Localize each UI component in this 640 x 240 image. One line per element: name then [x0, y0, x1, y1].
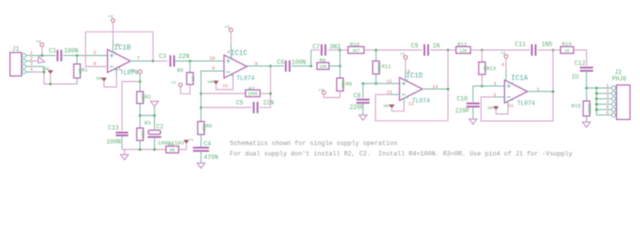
wire IC1C output — [247, 65, 284, 67]
wire R13 to ground — [586, 116, 588, 122]
svg-text:5: 5 — [94, 50, 97, 56]
svg-text:R13: R13 — [487, 66, 496, 72]
svg-text:3: 3 — [30, 61, 33, 67]
svg-text:0R: 0R — [170, 149, 176, 153]
svg-text:C9: C9 — [411, 42, 419, 49]
resistor R3 — [137, 128, 144, 141]
ground below C10 — [469, 119, 477, 124]
svg-text:C6: C6 — [277, 59, 285, 66]
svg-text:1M: 1M — [77, 68, 82, 74]
wire Vref flag stem — [154, 107, 156, 116]
wire R13 lower lead to pin3 line — [481, 75, 483, 87]
svg-text:+V: +V — [400, 53, 406, 58]
supply arrow GND below IC1A — [494, 107, 499, 110]
svg-text:+V: +V — [36, 40, 42, 45]
resistor R6 — [198, 122, 205, 135]
junction Vref divider — [139, 114, 142, 117]
capacitor C7 — [322, 44, 326, 55]
node N2 junction — [552, 49, 555, 52]
wire IC1C output feedback vertical — [270, 66, 272, 108]
capacitor C11 — [532, 44, 536, 55]
junction pin1/+V stem — [41, 54, 44, 57]
wire bias ground rail — [122, 149, 166, 151]
connector J1 pin 1 stub — [26, 55, 34, 57]
capacitor C10 — [466, 103, 479, 106]
junction R7/vertical — [269, 92, 272, 95]
junction IC1A output/feedback — [552, 90, 555, 93]
svg-text:R6: R6 — [206, 124, 212, 130]
connector J1 pin 3 circle — [22, 65, 26, 69]
wire IC1A V- to supply arrow — [496, 106, 508, 114]
pin IC1B V+ stub — [112, 40, 114, 52]
pin IC1C V+ stub — [230, 45, 232, 59]
supply arrow GND below IC1D — [389, 105, 394, 108]
svg-text:R7: R7 — [249, 86, 255, 92]
svg-text:IC1A: IC1A — [511, 75, 529, 83]
wire N2 to R14 — [553, 49, 561, 51]
svg-text:100N: 100N — [64, 48, 79, 55]
wire C8 top lead — [362, 84, 364, 99]
svg-text:C8: C8 — [354, 93, 362, 100]
pin IC1D V- stub — [403, 98, 405, 104]
svg-text:+V: +V — [189, 139, 194, 143]
svg-text:R8: R8 — [320, 58, 326, 64]
wire J1 pin4 to ground run — [34, 72, 77, 84]
svg-text:R11: R11 — [382, 64, 391, 70]
junction rail/C2 — [153, 148, 156, 151]
svg-text:C12: C12 — [575, 60, 586, 67]
connector J2 pin 4 circle — [612, 102, 616, 106]
wire +V to IC1A power pin — [505, 58, 507, 70]
wire R10 to C9 — [364, 49, 423, 51]
connector J1 pin 4 circle — [22, 70, 26, 74]
junction IC1D output/feedback — [447, 88, 450, 91]
wire C2 top lead — [154, 116, 156, 131]
wire rail gnd stem — [124, 150, 126, 155]
resistor R9 — [337, 78, 344, 91]
wire C7 to node B — [327, 49, 340, 51]
wire R6 to C4 — [200, 135, 202, 148]
resistor R12 — [456, 47, 471, 54]
svg-text:1M: 1M — [190, 76, 195, 82]
wire C8 bottom lead — [362, 103, 364, 115]
wire R5 top lead — [189, 61, 191, 73]
junction R11/pin12 line — [375, 82, 378, 85]
wire +V to IC1D power pin — [405, 59, 407, 70]
wire +V flag stem to pin1 net — [41, 47, 43, 56]
power +V above IC1D — [404, 56, 408, 60]
wire C2 bottom lead — [154, 138, 156, 150]
power +V above R2 — [138, 70, 142, 74]
svg-text:4: 4 — [502, 62, 505, 68]
supply arrow GND below IC1C — [214, 81, 219, 84]
resistor R1 — [74, 64, 81, 78]
svg-text:22N: 22N — [179, 53, 190, 60]
pin IC1C V- stub — [232, 74, 234, 79]
svg-text:220P: 220P — [455, 108, 470, 115]
capacitor C1 — [58, 50, 62, 61]
connector J2 body — [617, 85, 631, 120]
wire J2 bus stub to pin 3 — [597, 98, 612, 100]
svg-text:100K: 100K — [248, 93, 259, 97]
wire IC1A feedback loop — [481, 50, 553, 121]
svg-text:GND: GND — [43, 68, 51, 72]
svg-text:PHJ6: PHJ6 — [612, 75, 627, 82]
wire J2 bus stub to pin 2 — [597, 92, 612, 94]
node A junction — [310, 65, 313, 68]
wire N1 vertical upper lead — [481, 50, 483, 62]
svg-text:R10: R10 — [350, 42, 359, 48]
connector J2 pin 5 circle — [612, 108, 616, 112]
svg-text:100N: 100N — [107, 139, 122, 146]
power Vref flag below R5 — [179, 83, 183, 87]
connector J2 pin 2 circle — [612, 91, 616, 95]
wire C9 to R12 — [430, 49, 456, 51]
junction J2 bus pin 3 — [595, 98, 598, 101]
svg-text:C7: C7 — [313, 43, 321, 50]
wire R12 to node N1 — [471, 49, 483, 51]
wire C10 top lead — [472, 86, 474, 102]
svg-text:R14: R14 — [562, 41, 571, 47]
svg-text:C13: C13 — [108, 125, 119, 132]
junction Vref/C2 — [153, 114, 156, 117]
capacitor C4 — [193, 148, 209, 151]
svg-text:2: 2 — [606, 88, 609, 94]
power +V above IC1C — [229, 28, 233, 32]
junction IC1B output/feedback — [152, 60, 155, 63]
junction N1-vertical/pin3 line — [481, 85, 484, 88]
capacitor C12 — [580, 68, 593, 71]
svg-text:R9: R9 — [346, 81, 352, 87]
svg-text:100N: 100N — [292, 59, 307, 66]
svg-text:10K: 10K — [140, 94, 145, 102]
svg-text:1K: 1K — [564, 50, 570, 54]
connector J1 body — [10, 53, 22, 77]
junction feedback/C5 line — [200, 106, 203, 109]
resistor R13 (N1 to IC1A pin3) — [479, 62, 486, 75]
svg-text:4: 4 — [606, 99, 609, 105]
op-amp IC1B — [108, 50, 131, 73]
resistor R15 — [583, 101, 590, 116]
svg-text:GND: GND — [208, 81, 216, 85]
wire IC1A output — [528, 91, 554, 93]
junction J2 bus pin 4 — [595, 103, 598, 106]
wire +V to IC1B power pin — [112, 22, 114, 40]
wire IC1D pin13 stub — [390, 94, 400, 96]
pin IC1A V- stub — [507, 101, 509, 106]
svg-text:1N: 1N — [433, 42, 441, 49]
resistor R4 — [166, 146, 179, 153]
svg-text:4: 4 — [30, 66, 33, 72]
svg-text:R2: R2 — [145, 95, 151, 101]
wire IC1C V- to supply arrow — [216, 79, 233, 90]
op-amp IC1A — [505, 80, 528, 103]
resistor R14 — [561, 47, 574, 54]
svg-text:220P: 220P — [350, 104, 365, 111]
junction C12/J2 link — [585, 87, 588, 90]
connector J2 pin 1 circle — [612, 86, 616, 90]
ground below R13 — [583, 122, 591, 127]
svg-text:R5: R5 — [177, 68, 183, 74]
svg-text:68K: 68K — [201, 124, 206, 132]
connector J2 pin 6 circle — [612, 113, 616, 117]
svg-text:C10: C10 — [457, 95, 468, 102]
wire N1 to C11 — [482, 49, 530, 51]
wire +V to R2 — [139, 74, 141, 92]
svg-text:GND: GND — [384, 105, 392, 109]
svg-text:Schematics shown for single su: Schematics shown for single supply opera… — [230, 140, 398, 147]
wire J2 bus — [596, 88, 598, 115]
op-amp IC1C — [224, 55, 247, 78]
net flag arrow above C2 — [151, 101, 159, 106]
wire IC1B feedback loop pin6 — [86, 32, 154, 67]
wire node A to C7 — [311, 49, 320, 51]
svg-text:R15: R15 — [572, 103, 581, 109]
wire IC1D output — [423, 88, 449, 90]
junction J2 bus pin 5 — [595, 108, 598, 111]
svg-text:+V: +V — [171, 81, 177, 86]
node B top junction — [339, 49, 342, 52]
connector J1 pin 1 circle — [22, 54, 26, 58]
ground below C4 — [197, 163, 205, 168]
connector J1 pin 2 stub — [26, 60, 34, 62]
wire J2 bus stub to pin 5 — [597, 109, 612, 111]
wire node A vertical — [310, 50, 312, 66]
wire +V to IC1C power pin — [230, 32, 232, 45]
supply arrow GND below IC1B — [102, 78, 107, 81]
svg-text:22N: 22N — [263, 100, 274, 107]
wire node B vertical — [339, 50, 341, 78]
wire J2 bus stub to pin 6 — [597, 114, 612, 116]
wire R1 bottom lead to ground run — [76, 78, 78, 84]
pin IC1A V+ stub — [505, 70, 507, 81]
svg-text:10: 10 — [210, 56, 216, 62]
svg-text:1N5: 1N5 — [542, 41, 553, 48]
pin IC1B V- stub — [116, 68, 118, 76]
svg-text:6: 6 — [606, 110, 609, 116]
resistor R11 — [373, 61, 380, 74]
junction J1 pin3/pin4 — [43, 71, 46, 74]
wire C3 to IC1C pin10 — [175, 60, 224, 62]
resistor R8 — [317, 63, 329, 70]
resistor R2 — [137, 92, 144, 104]
capacitor C6 — [286, 60, 290, 71]
capacitor C5 — [254, 102, 258, 113]
wire IC1C pin9 to feedback — [201, 71, 224, 122]
wire R7 feedback line right — [260, 93, 271, 95]
svg-text:TL074: TL074 — [517, 100, 535, 107]
wire IC1B out to C3 — [153, 60, 167, 62]
svg-text:11: 11 — [408, 101, 414, 107]
junction J2 bus top — [595, 87, 598, 90]
svg-text:1: 1 — [606, 83, 609, 89]
svg-text:11: 11 — [508, 103, 514, 109]
capacitor C9 — [424, 44, 428, 55]
svg-text:For dual supply don't install: For dual supply don't install R2, C2. In… — [230, 151, 573, 158]
wire J1 pin1 to C1 — [34, 55, 56, 57]
wire C13 bottom lead — [121, 136, 123, 149]
resistor R10 — [348, 47, 364, 54]
wire J2 bus stub to pin 4 — [597, 103, 612, 105]
power +V above IC1A — [504, 55, 508, 59]
svg-text:11: 11 — [223, 83, 229, 89]
svg-text:1U: 1U — [572, 74, 580, 81]
svg-text:13K: 13K — [459, 50, 467, 54]
svg-text:68K: 68K — [340, 81, 345, 89]
junction C8/pin12 line — [362, 82, 365, 85]
wire C8 to IC1D pin12 — [363, 83, 400, 85]
op-amp IC1D — [400, 78, 423, 101]
svg-text:C3: C3 — [159, 53, 167, 60]
wire C10 bottom lead — [472, 107, 474, 119]
svg-text:4: 4 — [227, 49, 230, 55]
svg-text:+V: +V — [319, 88, 325, 93]
capacitor C8 — [356, 100, 369, 103]
svg-text:470N: 470N — [204, 154, 219, 161]
svg-text:150K: 150K — [376, 62, 381, 73]
svg-text:C1: C1 — [49, 48, 57, 55]
svg-text:4: 4 — [116, 42, 119, 48]
wire R11 top lead — [375, 50, 377, 61]
wire R4 to supply arrow — [179, 144, 187, 150]
svg-text:1M: 1M — [482, 66, 487, 72]
power +V above IC1B — [111, 19, 115, 23]
connector J1 pin 2 circle — [22, 59, 26, 63]
junction ground-run / arrow stem — [49, 83, 52, 86]
junction C3/R5 node — [189, 60, 192, 63]
wire +V branch to C13 — [122, 82, 140, 132]
svg-text:R4: R4 — [168, 142, 174, 148]
svg-text:C5: C5 — [236, 100, 244, 107]
wire C5 to output vertical — [260, 107, 271, 109]
svg-text:C11: C11 — [515, 41, 526, 48]
ground below bias rail — [121, 155, 129, 160]
wire C6 to node A — [292, 65, 311, 67]
wire R7 feedback line left — [201, 93, 246, 95]
wire IC1A pin2 stub — [494, 96, 505, 98]
wire C12 to J2/R13 — [586, 71, 588, 101]
capacitor C3 — [170, 55, 174, 66]
svg-text:3: 3 — [494, 81, 497, 87]
wire R14 to C12 — [574, 50, 587, 66]
svg-text:TL074: TL074 — [412, 98, 430, 105]
svg-text:IC1C: IC1C — [231, 50, 248, 58]
capacitor C2 (polarized) — [148, 130, 160, 134]
wire C1 to IC1B pin5 — [63, 55, 107, 57]
connector J1 pin 3 stub — [26, 66, 34, 68]
wire R3 bottom lead — [139, 141, 141, 150]
junction +V/C13 branch — [139, 80, 142, 83]
junction rail/R3 — [139, 148, 142, 151]
wire R11 bottom lead — [375, 74, 377, 84]
node B main junction — [339, 65, 342, 68]
svg-text:+V: +V — [225, 25, 231, 30]
wire C11 to N2 — [538, 49, 553, 51]
junction rail/IC1D output — [447, 49, 450, 52]
junction C1/R1 node — [76, 54, 79, 57]
svg-text:+9V: +9V — [128, 69, 136, 74]
ground flag at J1 pin2 (tilted) — [35, 57, 44, 66]
wire R8 to node B — [329, 65, 340, 67]
power +V flag above J1 pin1 — [40, 43, 44, 47]
node N1 junction — [481, 49, 484, 52]
supply arrow -V near J1 — [48, 71, 53, 74]
svg-text:J1: J1 — [12, 46, 20, 53]
wire R5 bottom lead to Vref flag — [181, 85, 191, 94]
connector J2 pin 3 circle — [612, 97, 616, 101]
resistor R5 — [187, 73, 194, 85]
wire IC1D feedback loop — [376, 50, 449, 121]
wire rail B to R10 — [340, 49, 348, 51]
svg-text:1: 1 — [30, 50, 33, 56]
svg-text:R12: R12 — [458, 42, 467, 48]
svg-text:GND: GND — [488, 107, 496, 111]
wire R2 to R3 — [139, 104, 141, 129]
wire C5 feedback line — [201, 107, 252, 109]
svg-text:4K7: 4K7 — [352, 50, 360, 54]
capacitor C13 — [116, 133, 128, 136]
svg-text:+V: +V — [108, 15, 114, 20]
svg-text:10K: 10K — [319, 66, 327, 70]
resistor R7 — [246, 90, 261, 97]
power flag below R9 — [322, 91, 326, 95]
wire IC1D V- to supply arrow — [392, 104, 404, 111]
wire J1 pin2 to ground flag — [34, 60, 38, 62]
svg-text:10K: 10K — [140, 130, 145, 138]
supply arrow at R4 — [184, 140, 189, 143]
wire C10 to IC1A pin3 — [473, 85, 505, 87]
svg-text:+V: +V — [500, 52, 506, 57]
wire IC1B output — [130, 60, 153, 62]
svg-text:3: 3 — [606, 94, 609, 100]
connector J1 pin 4 stub — [26, 71, 34, 73]
svg-text:12: 12 — [387, 79, 393, 85]
svg-text:GND: GND — [96, 78, 104, 82]
svg-text:C2: C2 — [156, 124, 164, 131]
svg-text:5: 5 — [606, 104, 609, 110]
junction J2 bus pin 2 — [595, 92, 598, 95]
wire ground-run stem to supply arrow — [49, 74, 51, 84]
wire R1 top lead — [76, 56, 78, 65]
wire R9 to Vref flag — [324, 91, 340, 98]
pin IC1D V+ stub — [405, 70, 407, 80]
ground below C8 — [359, 115, 367, 120]
wire Vref jog — [140, 115, 155, 117]
junction feedback/R7 line — [200, 92, 203, 95]
svg-text:4: 4 — [407, 68, 410, 74]
junction IC1C output node — [269, 65, 272, 68]
svg-text:R3: R3 — [145, 120, 151, 126]
svg-text:2: 2 — [30, 55, 33, 61]
junction rail/R11 — [375, 49, 378, 52]
svg-text:100K: 100K — [586, 103, 591, 114]
svg-text:C4: C4 — [204, 140, 212, 147]
wire link to J2 pin1 — [587, 87, 612, 89]
wire IC1B V- to supply arrow — [104, 76, 117, 87]
svg-text:TL074: TL074 — [237, 75, 255, 82]
wire C4 to ground — [200, 151, 202, 163]
wire J1 pin3 — [34, 67, 44, 73]
